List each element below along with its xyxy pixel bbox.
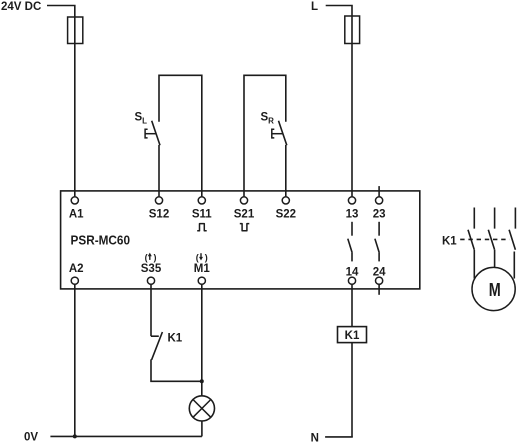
svg-text:(: ( (145, 252, 148, 262)
svg-text:S22: S22 (276, 208, 296, 220)
svg-text:N: N (311, 432, 319, 443)
svg-text:PSR-MC60: PSR-MC60 (71, 233, 131, 248)
svg-text:S21: S21 (234, 208, 255, 220)
svg-text:A2: A2 (69, 263, 84, 275)
svg-text:K1: K1 (442, 235, 457, 247)
svg-text:A1: A1 (69, 208, 84, 220)
svg-text:K1: K1 (168, 333, 183, 345)
svg-text:(: ( (196, 252, 199, 262)
svg-text:L: L (311, 1, 318, 13)
svg-text:24V DC: 24V DC (1, 1, 41, 13)
svg-text:S35: S35 (141, 263, 162, 275)
svg-text:M: M (489, 280, 501, 300)
svg-text:0V: 0V (24, 431, 38, 443)
svg-text:M1: M1 (194, 263, 211, 275)
svg-text:K1: K1 (345, 330, 360, 342)
svg-text:): ) (154, 252, 157, 262)
svg-text:S11: S11 (192, 208, 212, 220)
svg-text:): ) (205, 252, 208, 262)
svg-text:13: 13 (346, 208, 359, 220)
svg-text:23: 23 (373, 208, 386, 220)
svg-text:S12: S12 (149, 208, 169, 220)
